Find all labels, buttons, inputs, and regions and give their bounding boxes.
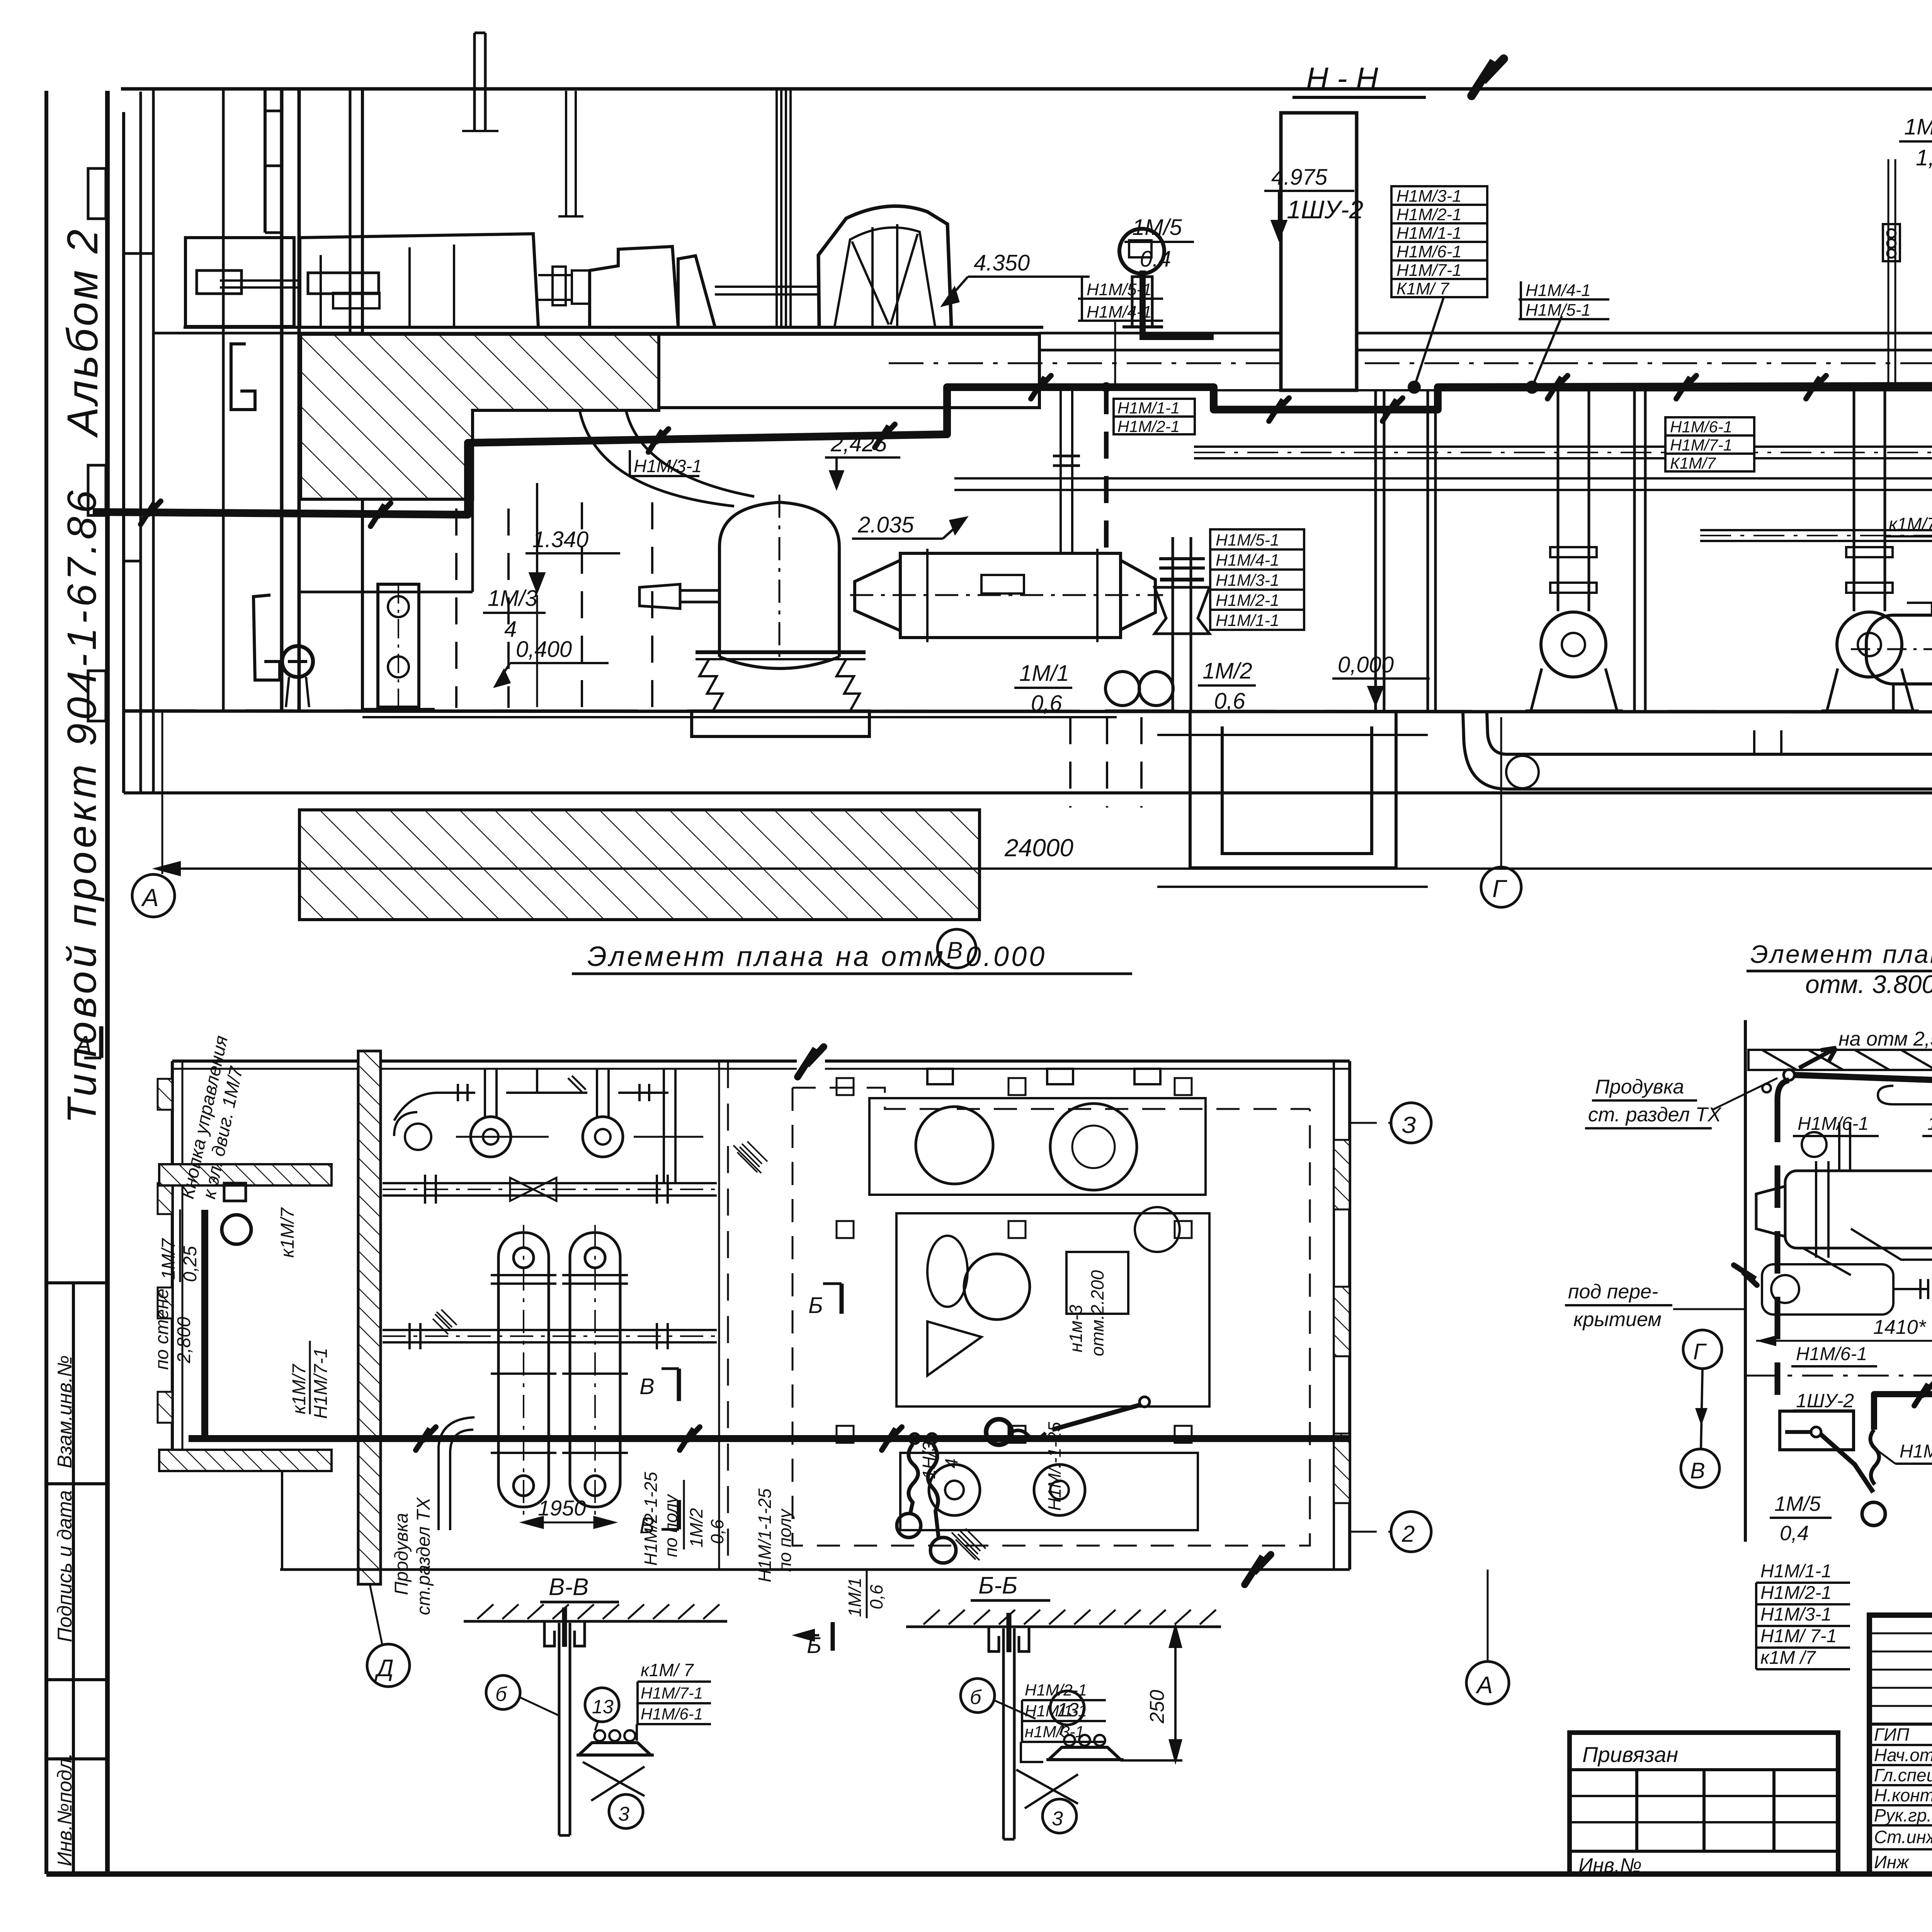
c-profile below floor (231, 344, 255, 410)
rotated machine labels (641, 1270, 1107, 1617)
svg-text:Н1М/4-1: Н1М/4-1 (1087, 303, 1152, 321)
svg-text:1.340: 1.340 (532, 527, 588, 552)
svg-text:Д: Д (374, 1655, 394, 1682)
svg-text:Продувка: Продувка (391, 1513, 412, 1595)
svg-text:0.4: 0.4 (1140, 247, 1171, 272)
svg-text:1М/6: 1М/6 (1904, 114, 1932, 139)
svg-text:1Н/3: 1Н/3 (919, 1441, 939, 1479)
crane column (280, 89, 284, 711)
svg-text:1950: 1950 (538, 1496, 586, 1520)
svg-text:к1М /7: к1М /7 (1760, 1648, 1816, 1668)
privyazan box (1570, 1733, 1838, 1874)
frame left inner line (105, 91, 110, 1874)
svg-text:б: б (970, 1686, 982, 1709)
axis extension lines (162, 712, 163, 874)
stamp strip row lines (46, 1281, 107, 1284)
svg-text:Н1М/2-1: Н1М/2-1 (1216, 591, 1279, 610)
compressor unit in plan (837, 1078, 1209, 1530)
svg-text:Инж: Инж (1874, 1852, 1910, 1872)
heat exchanger vessels in plan (439, 1225, 628, 1530)
svg-text:1М/1: 1М/1 (1019, 661, 1069, 686)
svg-text:В-В: В-В (549, 1574, 588, 1600)
middle drive block (590, 247, 678, 327)
svg-text:0,4: 0,4 (1780, 1522, 1809, 1545)
axis circle D bottom left (367, 1644, 410, 1687)
svg-text:Н1М/5-1: Н1М/5-1 (1526, 301, 1591, 320)
svg-text:под пере-: под пере- (1568, 1281, 1658, 1303)
svg-text:Гл.спец: Гл.спец (1874, 1765, 1932, 1785)
hanger (544, 1621, 554, 1646)
svg-text:2,425: 2,425 (830, 431, 887, 456)
ceiling hatched band (1748, 1050, 1932, 1070)
leader from dot1 to label stack (1414, 298, 1444, 387)
inner wall face (361, 89, 364, 711)
fraction 1M/5 0.4 (1124, 215, 1194, 272)
label H1M/3-1 near machine (630, 450, 699, 476)
svg-text:3: 3 (618, 1803, 629, 1825)
bottom left wall hatched (159, 1450, 332, 1471)
svg-text:Н1М/6-1: Н1М/6-1 (1798, 1114, 1869, 1134)
svg-text:Н1М/5-1: Н1М/5-1 (1087, 280, 1152, 299)
svg-text:1М/2: 1М/2 (1202, 658, 1252, 684)
svg-text:Н1М/5-1: Н1М/5-1 (1216, 531, 1279, 549)
svg-text:Подпись и дата: Подпись и дата (54, 1490, 76, 1642)
svg-text:1ШУ-2: 1ШУ-2 (1287, 195, 1363, 224)
svg-text:2: 2 (1401, 1521, 1415, 1547)
svg-text:0,400: 0,400 (516, 637, 572, 662)
fraction 1M/3 4 (483, 586, 546, 642)
label stack H1M/3-1 group (1391, 186, 1487, 297)
axis circle A bottom (1466, 1662, 1509, 1704)
cable to machine junction (1139, 1397, 1150, 1407)
svg-text:1М/1: 1М/1 (845, 1578, 865, 1617)
svg-text:Н1М/2-1: Н1М/2-1 (1760, 1583, 1832, 1603)
circle 3 (V-V) (609, 1794, 643, 1828)
svg-text:отм.2.200: отм.2.200 (1087, 1270, 1107, 1356)
stamp strip divider (72, 1283, 75, 1874)
svg-text:Н1М/1-1-25: Н1М/1-1-25 (755, 1488, 775, 1582)
svg-text:Н1М/4-1: Н1М/4-1 (1526, 281, 1591, 300)
signature rows text (1874, 1725, 1932, 1872)
title block outer (1869, 1615, 1932, 1874)
plan left wall (171, 1061, 174, 1453)
foundation dashed boundary (793, 1088, 1310, 1109)
gauge instrument 1M/5 (1119, 229, 1164, 327)
svg-text:1,3: 1,3 (1916, 145, 1932, 170)
svg-text:Н1М/7-1: Н1М/7-1 (1396, 261, 1462, 280)
svg-text:Альбом 2: Альбом 2 (58, 227, 107, 438)
level 2.035 (852, 512, 966, 539)
horizontal exchanger in basement (850, 549, 1163, 642)
svg-text:б: б (495, 1683, 507, 1706)
circle 13 (B-B) (1050, 1691, 1084, 1725)
svg-text:по стене: по стене (152, 1289, 172, 1370)
level 2,425 (825, 431, 900, 488)
pipe run with valve (383, 1182, 717, 1184)
svg-text:Н1М/ 7-1: Н1М/ 7-1 (1760, 1626, 1837, 1646)
svg-text:Н1М/6-1: Н1М/6-1 (641, 1705, 703, 1723)
axis circle G (1481, 867, 1521, 907)
svg-text:Н1М/6-1: Н1М/6-1 (1796, 1344, 1867, 1364)
elbow pipes below-left (450, 1430, 473, 1453)
tray with cables (580, 1743, 650, 1754)
svg-text:Г: Г (1492, 875, 1507, 903)
svg-text:Н1М/1-1: Н1М/1-1 (1216, 611, 1279, 630)
roof line left (121, 87, 1932, 91)
machine platform line (184, 326, 1043, 329)
level 1.340 (526, 483, 620, 707)
svg-text:к1М/7: к1М/7 (1889, 514, 1932, 534)
svg-text:Б-Б: Б-Б (978, 1572, 1017, 1599)
svg-text:0,6: 0,6 (707, 1519, 727, 1544)
svg-text:ст. раздел ТХ: ст. раздел ТХ (1588, 1104, 1722, 1126)
svg-text:1М/5: 1М/5 (1774, 1492, 1821, 1515)
svg-text:ст.раздел ТХ: ст.раздел ТХ (413, 1497, 434, 1615)
label stack H1M/6-1 H1M/7-1 K1M/7 (1665, 417, 1754, 471)
svg-text:2.035: 2.035 (857, 512, 914, 537)
svg-text:1М/2: 1М/2 (686, 1508, 706, 1548)
svg-text:А: А (141, 884, 159, 912)
svg-text:Н1М/1-1: Н1М/1-1 (1760, 1561, 1832, 1582)
cable break jags (371, 503, 391, 526)
gallery band lines center (889, 333, 1932, 390)
svg-text:4: 4 (941, 1458, 961, 1468)
svg-text:1М/6: 1М/6 (1927, 1114, 1932, 1134)
left wall hatched piers (158, 1079, 172, 1110)
svg-text:Инв.№: Инв.№ (1578, 1854, 1642, 1877)
basement pump 1 (1526, 390, 1623, 711)
svg-text:0,6: 0,6 (1031, 691, 1062, 716)
svg-text:Н1М/1-1: Н1М/1-1 (1396, 224, 1462, 243)
svg-text:крытием: крытием (1573, 1308, 1662, 1331)
plan top wall (172, 1060, 797, 1063)
svg-text:Нач.отд: Нач.отд (1874, 1745, 1932, 1765)
junction dots with drops (910, 1434, 920, 1444)
bottom label stack plan3.8 (1760, 1561, 1837, 1668)
svg-text:Н1М/.-1-25: Н1М/.-1-25 (1044, 1422, 1065, 1511)
level 0,400 (495, 637, 609, 686)
break jag bottom edge (1245, 1554, 1271, 1585)
rotated notes left (152, 1034, 434, 1615)
svg-text:Н1М/3-1: Н1М/3-1 (1216, 571, 1279, 590)
svg-text:Взам.инв.№: Взам.инв.№ (54, 1355, 76, 1468)
svg-text:к1М/ 7: к1М/ 7 (641, 1660, 694, 1680)
svg-text:В: В (639, 1513, 655, 1538)
dim 1950 (523, 1496, 614, 1528)
svg-text:1М/3: 1М/3 (488, 586, 537, 611)
svg-text:4.975: 4.975 (1271, 165, 1328, 190)
cable at ceiling 3.8 (1784, 1070, 1794, 1080)
plan bottom edge (280, 1568, 1350, 1571)
svg-text:0,000: 0,000 (1338, 652, 1394, 677)
long air duct pipes across hall (954, 447, 1932, 541)
svg-text:250: 250 (1146, 1690, 1168, 1724)
svg-text:Н.контр: Н.контр (1874, 1785, 1932, 1805)
svg-text:А: А (74, 1031, 92, 1058)
foundation step lines (471, 499, 474, 592)
svg-text:Н1М/5-1: Н1М/5-1 (1900, 1441, 1932, 1462)
svg-text:1М/5: 1М/5 (1132, 215, 1182, 240)
left end wall lines (122, 112, 125, 793)
axis circle 2 right (1391, 1512, 1431, 1552)
svg-text:А: А (1475, 1672, 1493, 1699)
svg-text:н1М/3-1: н1М/3-1 (1025, 1723, 1084, 1741)
left wall plan 3.8 (1744, 1020, 1747, 1542)
cable gauge branch (1143, 270, 1214, 337)
thick valve circle (986, 1419, 1012, 1445)
door jamb verticals in hall (1376, 94, 1932, 712)
ceiling line with ticks (464, 1620, 727, 1623)
circle 13 (V-V) (585, 1688, 619, 1722)
label box H1M/4-1 H1M/5-1 right (1519, 281, 1609, 319)
svg-text:Н1М/1-1: Н1М/1-1 (1117, 399, 1180, 417)
fraction 1M/6 1,3 (1899, 114, 1932, 170)
svg-text:Б: Б (808, 1293, 823, 1318)
svg-text:К1М/ 7: К1М/ 7 (1396, 279, 1450, 298)
hanging pipe supports (1888, 159, 1889, 390)
svg-text:Н1М/2-1: Н1М/2-1 (1117, 417, 1180, 435)
suction pipes curving into vessel (580, 410, 734, 506)
dash axis (1747, 1375, 1932, 1377)
svg-text:Н1М/3-1: Н1М/3-1 (1396, 187, 1462, 206)
circle b (B-B) (961, 1679, 995, 1713)
break mark after title (1471, 59, 1503, 96)
crosshatch marks (433, 1141, 986, 1560)
level 4.975 (1264, 165, 1354, 239)
svg-text:В: В (639, 1374, 655, 1399)
svg-text:отм. 3.800: отм. 3.800 (1805, 970, 1932, 998)
svg-text:4: 4 (504, 617, 517, 642)
svg-text:к1М/7: к1М/7 (289, 1363, 310, 1414)
svg-text:0,25: 0,25 (180, 1246, 201, 1282)
central hatched wall (358, 1051, 381, 1584)
svg-text:Н1М/4-1: Н1М/4-1 (1216, 551, 1279, 570)
basement suction manifold (1463, 712, 1932, 789)
plan right wall (1333, 1061, 1335, 1570)
svg-text:24000: 24000 (1004, 834, 1073, 862)
svg-text:3: 3 (1052, 1808, 1063, 1830)
svg-text:13: 13 (592, 1696, 614, 1718)
svg-text:0,6: 0,6 (866, 1585, 886, 1609)
svg-text:к1М/7: к1М/7 (277, 1207, 298, 1258)
junction dot 2 (1526, 381, 1539, 394)
frame bottom line (46, 1871, 1932, 1877)
svg-text:Типовой проект 904-1-67.86: Типовой проект 904-1-67.86 (59, 487, 105, 1124)
svg-text:ГИП: ГИП (1874, 1725, 1910, 1745)
svg-text:Элемент плана на: Элемент плана на (1750, 940, 1932, 968)
bottom hatched foundation strip (299, 810, 980, 920)
machine foundation white block (659, 334, 1039, 410)
section title H-H (1293, 61, 1426, 97)
oil separator vessel in basement (580, 410, 869, 736)
wall ladder (264, 90, 267, 233)
svg-text:З: З (1402, 1112, 1416, 1138)
machinery group left: motor (184, 90, 1043, 333)
tray (1049, 1747, 1120, 1759)
motor shaft and coupling (538, 274, 572, 276)
section flags V (639, 1284, 842, 1658)
wall piers top (927, 1069, 953, 1084)
basement floor line (124, 791, 1932, 794)
svg-text:по полу: по полу (775, 1508, 795, 1572)
label stack 5 rows center low (1210, 529, 1304, 630)
circle b (V-V) (486, 1675, 520, 1709)
hall edge lines (718, 1061, 720, 1570)
label box H1M/5-1 H1M/4-1 (1078, 277, 1163, 321)
junction dot 1 (1408, 381, 1421, 394)
axis circle B (937, 929, 976, 968)
svg-text:Элемент плана на отм. 0: Элемент плана на отм. 0.000 (587, 941, 1047, 972)
svg-text:Н1М/7-1: Н1М/7-1 (641, 1684, 703, 1702)
floor line 0.000 level (124, 711, 1932, 712)
svg-text:Привязан: Привязан (1582, 1742, 1678, 1767)
svg-text:Н1М/6-1: Н1М/6-1 (1670, 418, 1732, 436)
svg-text:Рук.гр.: Рук.гр. (1874, 1805, 1932, 1825)
pit at 0.000 (1157, 712, 1428, 887)
X to circle 3 (583, 1762, 645, 1801)
control button box (224, 1183, 246, 1201)
svg-text:1М/7: 1М/7 (158, 1238, 179, 1280)
svg-text:4.350: 4.350 (974, 250, 1030, 276)
svg-text:Продувка: Продувка (1595, 1076, 1684, 1098)
compressor crosshead striped band (776, 90, 778, 327)
svg-text:Инв.№подл.: Инв.№подл. (54, 1753, 76, 1866)
condensate pump units (1105, 672, 1175, 711)
compressor unit at 3.8 (1756, 1122, 1932, 1315)
svg-text:1410*: 1410* (1873, 1316, 1927, 1338)
basement pump 2 (1821, 390, 1919, 711)
svg-text:Н1М/6-1: Н1М/6-1 (1396, 242, 1462, 261)
svg-text:1ШУ-2: 1ШУ-2 (1796, 1390, 1854, 1412)
cabinet 1ShU-2 (1281, 113, 1357, 390)
svg-text:на отм 2,5м: на отм 2,5м (1838, 1028, 1932, 1050)
break jag top wall (798, 1047, 824, 1077)
svg-text:Н1М/3-1: Н1М/3-1 (1760, 1604, 1832, 1625)
circle 3 (B-B) (1043, 1799, 1077, 1833)
svg-text:Г: Г (1693, 1339, 1707, 1364)
1ShU-2 box (1780, 1411, 1854, 1450)
axis circle 3 right (1391, 1103, 1431, 1143)
cable at 3.8 lower run (1874, 1394, 1932, 1430)
svg-text:В: В (1690, 1458, 1705, 1483)
drop 1 (1870, 1430, 1879, 1485)
svg-text:Н1М/2-1: Н1М/2-1 (1396, 205, 1462, 224)
wall base floor dashed (153, 332, 362, 335)
frame left outer line (44, 91, 48, 1874)
left pipe stub with cone (639, 584, 680, 609)
svg-text:2,800: 2,800 (174, 1317, 194, 1364)
compressor tower (818, 206, 951, 327)
basement tank right (1851, 603, 1932, 711)
axis circles G and V (1683, 1330, 1722, 1369)
jag marks on walls (1734, 1265, 1757, 1285)
label box H1M/1-1 H1M/2-1 (1114, 399, 1195, 434)
level 0,000 (1332, 652, 1430, 704)
svg-text:н1м-3: н1м-3 (1066, 1304, 1086, 1352)
c-profile lower (253, 595, 280, 680)
leader from dot2 to label box (1532, 316, 1562, 387)
level 4.350 (943, 250, 1090, 305)
plan cable run (201, 1210, 208, 1439)
axis circle A (132, 874, 175, 917)
fraction 1M/2 0,6 (1198, 658, 1256, 714)
plan machinery upper-left pumps (383, 1069, 719, 1349)
svg-text:Н1М/7-1: Н1М/7-1 (311, 1348, 331, 1419)
dim line 24000 (156, 867, 1932, 870)
svg-text:0,6: 0,6 (1214, 689, 1245, 714)
support squares (837, 1078, 854, 1095)
svg-text:Н1М/7-1: Н1М/7-1 (1670, 436, 1732, 454)
fraction 1M/1 0,6 (1014, 661, 1072, 716)
svg-text:13: 13 (1057, 1699, 1079, 1721)
svg-text:К1М/7: К1М/7 (1670, 454, 1716, 472)
foundation hatched block upper (301, 334, 659, 499)
svg-text:Н1М/3-1: Н1М/3-1 (634, 456, 702, 476)
cable k1M/7 main run (93, 386, 1932, 515)
svg-text:Ст.инж: Ст.инж (1874, 1827, 1932, 1847)
valve assembly center (1155, 537, 1209, 711)
